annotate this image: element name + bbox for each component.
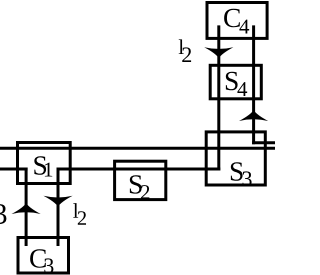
label C3 subscript [44, 258, 53, 273]
label S4 [226, 72, 238, 90]
label C3 [30, 249, 46, 267]
switch S1 [18, 143, 71, 184]
wire upper bus [0, 147, 275, 150]
label S3 [231, 162, 243, 180]
capacitor C4 [207, 3, 267, 39]
label l2 at left rail [179, 39, 184, 54]
wire right output stub [252, 141, 275, 144]
label C4 [224, 9, 240, 27]
label S1 [34, 156, 46, 174]
wire lower bus right segment [57, 168, 221, 171]
wire I2 branch to C3 [57, 168, 60, 247]
arrow current l3 up on I3 branch [12, 203, 41, 214]
switch S4 [210, 65, 261, 99]
label S2 [130, 175, 142, 193]
label l2 at I2 branch [73, 203, 78, 218]
arrow current l2 down on I2 branch [43, 196, 72, 207]
wire right rail C4-S4-stub [252, 25, 255, 144]
label S2 subscript [141, 185, 149, 199]
label S1 subscript [45, 163, 52, 177]
arrow current up on right rail [239, 110, 268, 121]
label C4 subscript [239, 20, 249, 34]
switch S3 [206, 132, 265, 185]
label l3 subscript at image left edge [0, 204, 6, 224]
label l2 subscript at I2 branch [78, 211, 86, 225]
label l2 subscript at left rail [182, 47, 191, 62]
label S3 subscript [243, 171, 252, 186]
wire left rail C4-S4-S3 [217, 25, 220, 170]
wire lower bus left segment [0, 168, 28, 171]
label S4 subscript [237, 82, 247, 96]
arrow current l2 down on left rail [204, 47, 233, 58]
wire I3 branch to C3 [25, 168, 28, 247]
switch S2 [115, 161, 166, 199]
capacitor C3 [18, 238, 69, 274]
